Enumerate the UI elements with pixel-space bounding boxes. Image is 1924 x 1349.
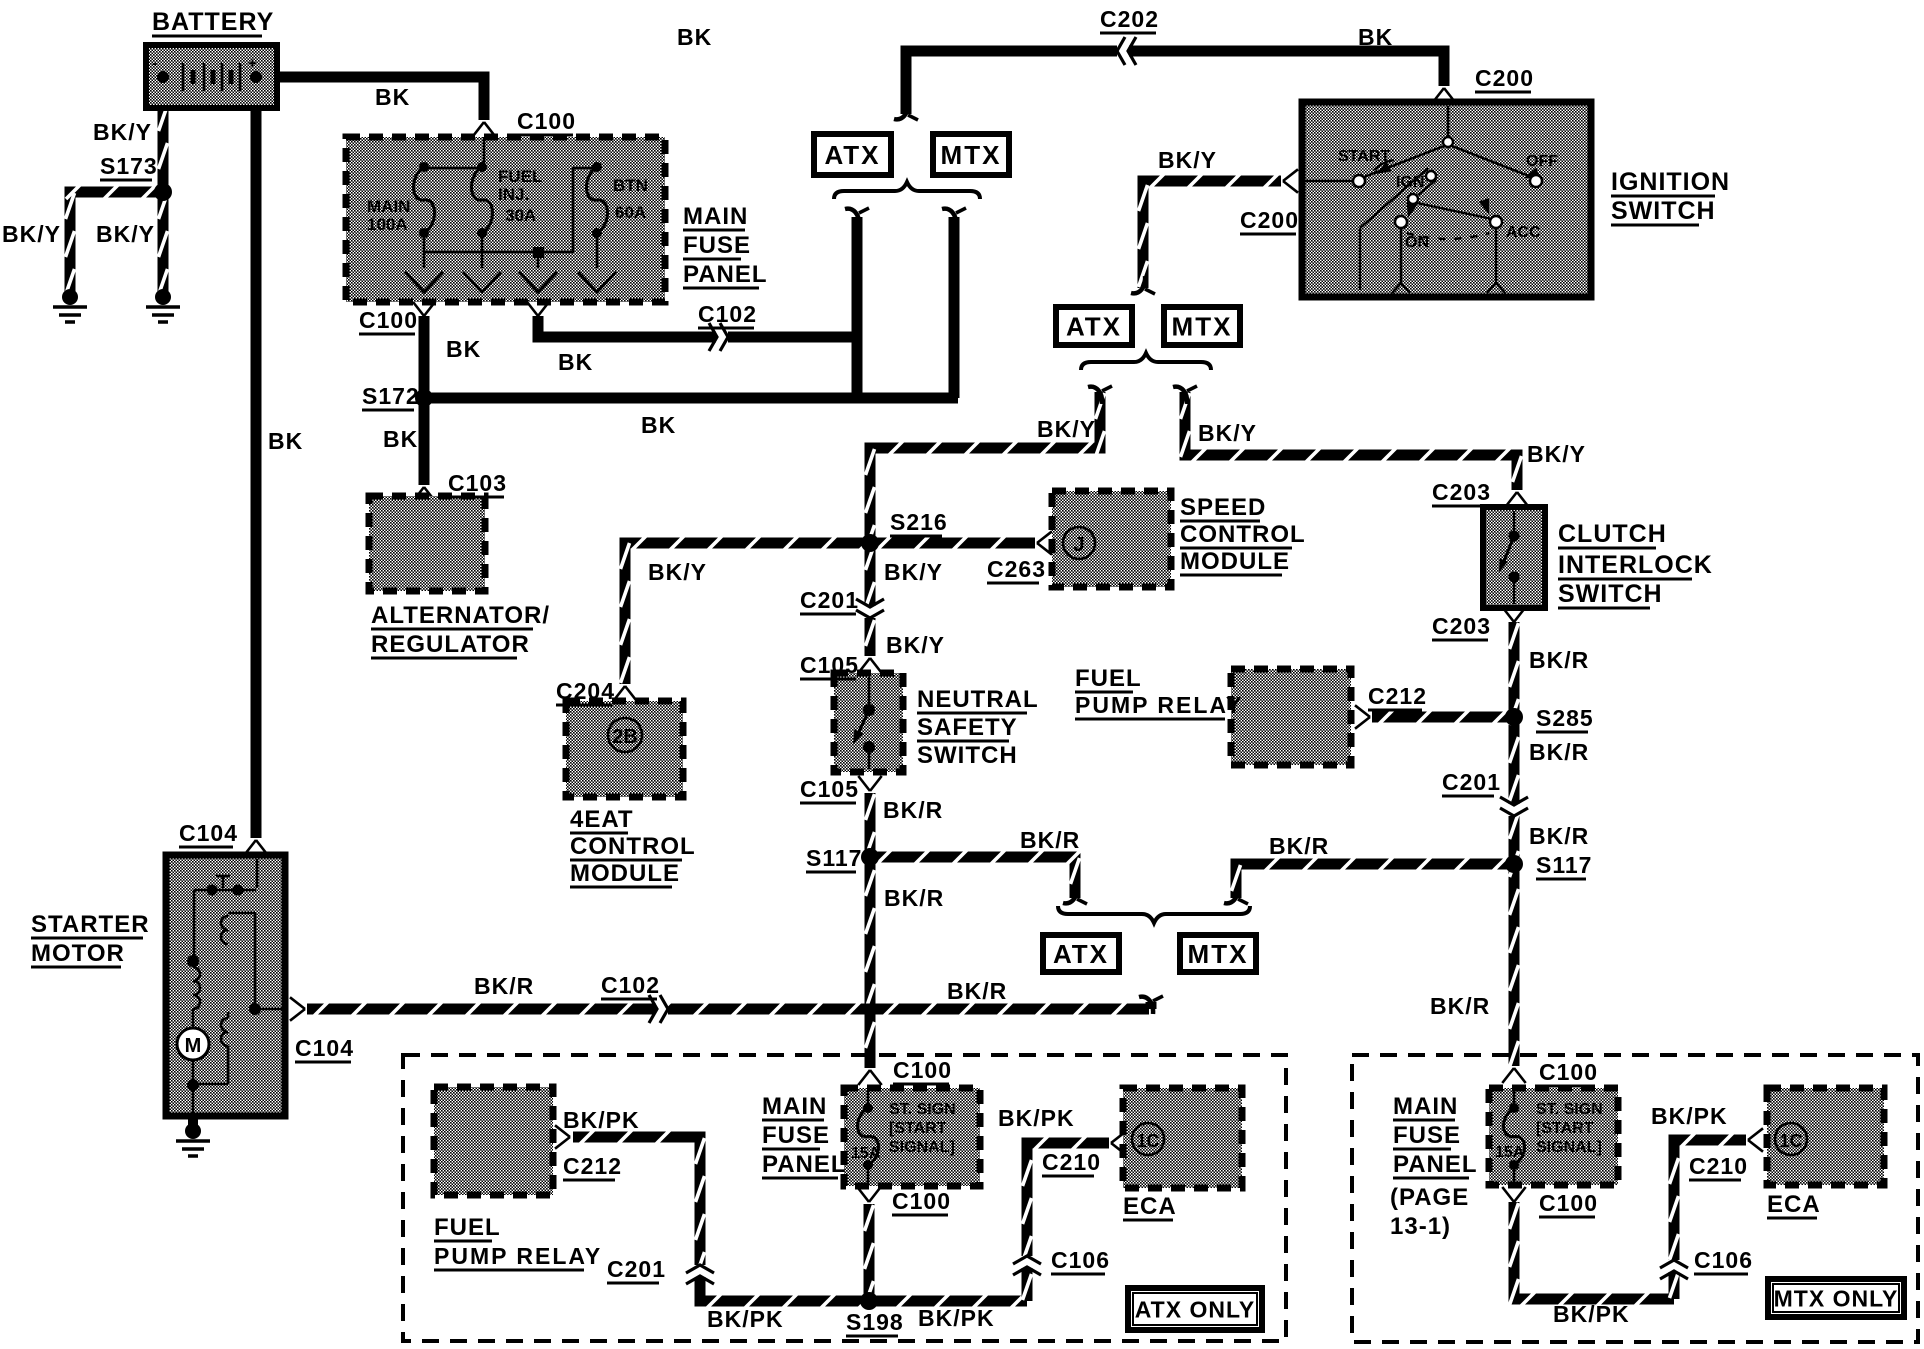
svg-text:BK/Y: BK/Y <box>1198 420 1257 446</box>
svg-text:FUEL: FUEL <box>1075 665 1142 692</box>
svg-text:[START: [START <box>1536 1120 1594 1137</box>
svg-text:1C: 1C <box>1779 1131 1802 1151</box>
svg-text:SIGNAL]: SIGNAL] <box>1536 1139 1602 1156</box>
svg-text:BK/PK: BK/PK <box>1553 1301 1630 1327</box>
svg-text:C106: C106 <box>1694 1247 1753 1273</box>
svg-text:MAIN: MAIN <box>1393 1093 1458 1120</box>
svg-text:PANEL: PANEL <box>1393 1151 1478 1178</box>
svg-text:BK: BK <box>446 336 481 362</box>
svg-text:SAFETY: SAFETY <box>917 714 1018 741</box>
svg-text:IGNITION: IGNITION <box>1611 168 1730 196</box>
svg-text:BK: BK <box>641 412 676 438</box>
svg-text:MOTOR: MOTOR <box>31 940 125 967</box>
svg-text:CONTROL: CONTROL <box>1180 521 1306 548</box>
svg-text:SIGNAL]: SIGNAL] <box>889 1139 955 1156</box>
svg-text:MAIN: MAIN <box>683 203 748 230</box>
svg-text:BK/Y: BK/Y <box>1158 147 1217 173</box>
svg-text:S173: S173 <box>100 153 158 179</box>
svg-text:C210: C210 <box>1042 1149 1101 1175</box>
svg-text:ECA: ECA <box>1767 1191 1821 1218</box>
svg-text:BK/R: BK/R <box>474 973 534 999</box>
svg-text:BK/R: BK/R <box>1529 647 1589 673</box>
svg-text:C102: C102 <box>698 301 757 327</box>
svg-text:MTX ONLY: MTX ONLY <box>1774 1285 1899 1311</box>
svg-text:BK/R: BK/R <box>947 978 1007 1004</box>
svg-text:2B: 2B <box>612 726 638 748</box>
svg-text:15A: 15A <box>851 1145 881 1162</box>
svg-text:MAIN: MAIN <box>367 197 410 216</box>
svg-text:C100: C100 <box>359 307 418 333</box>
svg-text:1C: 1C <box>1136 1131 1159 1151</box>
svg-text:STARTER: STARTER <box>31 911 150 938</box>
svg-text:FUEL: FUEL <box>434 1214 501 1241</box>
svg-text:MODULE: MODULE <box>1180 548 1290 575</box>
svg-text:BK: BK <box>677 24 712 50</box>
svg-text:ATX: ATX <box>1066 311 1122 341</box>
svg-text:ST. SIGN: ST. SIGN <box>889 1101 956 1118</box>
svg-text:CONTROL: CONTROL <box>570 833 696 860</box>
svg-text:C204: C204 <box>556 678 615 704</box>
svg-text:BK/Y: BK/Y <box>648 559 707 585</box>
svg-text:15A: 15A <box>1495 1144 1525 1161</box>
svg-text:BK/Y: BK/Y <box>2 221 61 247</box>
svg-text:C105: C105 <box>800 652 859 678</box>
svg-text:BK: BK <box>1358 24 1393 50</box>
svg-text:BK/R: BK/R <box>1529 823 1589 849</box>
svg-text:BK/PK: BK/PK <box>563 1107 640 1133</box>
svg-text:J: J <box>1073 534 1084 556</box>
svg-text:BK/Y: BK/Y <box>1037 416 1096 442</box>
svg-text:BK/R: BK/R <box>1020 827 1080 853</box>
svg-text:C201: C201 <box>1442 769 1501 795</box>
svg-text:PUMP RELAY: PUMP RELAY <box>434 1243 602 1269</box>
svg-text:OFF: OFF <box>1526 153 1558 170</box>
svg-text:S216: S216 <box>890 509 948 535</box>
svg-text:ACC: ACC <box>1506 224 1541 241</box>
svg-text:FUEL: FUEL <box>498 167 542 186</box>
svg-text:C100: C100 <box>892 1188 951 1214</box>
svg-text:S198: S198 <box>846 1309 904 1335</box>
svg-text:ATX: ATX <box>1053 939 1109 969</box>
svg-text:C104: C104 <box>179 820 238 846</box>
svg-text:BK/R: BK/R <box>1269 833 1329 859</box>
svg-text:MAIN: MAIN <box>762 1093 827 1120</box>
svg-text:60A: 60A <box>615 203 646 222</box>
svg-text:S172: S172 <box>362 383 420 409</box>
svg-text:ECA: ECA <box>1123 1193 1177 1220</box>
svg-text:CLUTCH: CLUTCH <box>1558 520 1667 548</box>
svg-text:4EAT: 4EAT <box>570 806 634 833</box>
svg-text:PUMP RELAY: PUMP RELAY <box>1075 692 1243 718</box>
svg-text:BK/Y: BK/Y <box>1527 441 1586 467</box>
svg-text:C200: C200 <box>1475 65 1534 91</box>
svg-text:REGULATOR: REGULATOR <box>371 631 530 658</box>
svg-text:FUSE: FUSE <box>1393 1122 1461 1149</box>
svg-text:C100: C100 <box>517 108 576 134</box>
svg-text:START: START <box>1338 148 1390 165</box>
svg-text:C100: C100 <box>1539 1059 1598 1085</box>
svg-text:C201: C201 <box>800 587 859 613</box>
svg-text:S117: S117 <box>806 845 862 871</box>
svg-text:C104: C104 <box>295 1035 354 1061</box>
svg-text:BK/PK: BK/PK <box>998 1105 1075 1131</box>
svg-text:BK/Y: BK/Y <box>93 119 152 145</box>
svg-text:ALTERNATOR/: ALTERNATOR/ <box>371 602 550 629</box>
svg-text:ON: ON <box>1405 234 1429 251</box>
svg-text:PANEL: PANEL <box>683 261 768 288</box>
svg-text:BK/R: BK/R <box>1529 739 1589 765</box>
svg-text:SPEED: SPEED <box>1180 494 1266 521</box>
svg-text:C201: C201 <box>607 1256 666 1282</box>
svg-text:BK: BK <box>375 84 410 110</box>
svg-text:+: + <box>248 55 258 72</box>
svg-text:C102: C102 <box>601 972 660 998</box>
svg-text:S285: S285 <box>1536 705 1594 731</box>
svg-text:C100: C100 <box>1539 1190 1598 1216</box>
svg-text:S117: S117 <box>1536 852 1592 878</box>
svg-text:BK/R: BK/R <box>883 797 943 823</box>
svg-text:BK/PK: BK/PK <box>707 1306 784 1332</box>
svg-text:C210: C210 <box>1689 1153 1748 1179</box>
svg-text:ATX ONLY: ATX ONLY <box>1135 1296 1255 1322</box>
svg-text:C106: C106 <box>1051 1247 1110 1273</box>
svg-text:INTERLOCK: INTERLOCK <box>1558 551 1713 579</box>
svg-text:BK/PK: BK/PK <box>1651 1103 1728 1129</box>
svg-text:100A: 100A <box>367 215 408 234</box>
svg-text:C105: C105 <box>800 776 859 802</box>
svg-text:BTN: BTN <box>613 176 648 195</box>
svg-text:30A: 30A <box>505 206 536 225</box>
svg-text:BK/Y: BK/Y <box>96 221 155 247</box>
svg-text:BK/Y: BK/Y <box>884 559 943 585</box>
svg-text:SWITCH: SWITCH <box>1558 580 1663 608</box>
svg-text:M: M <box>185 1035 202 1057</box>
svg-text:MODULE: MODULE <box>570 860 680 887</box>
svg-text:INJ.: INJ. <box>498 185 529 204</box>
svg-text:MTX: MTX <box>1172 311 1233 341</box>
svg-text:C263: C263 <box>987 556 1046 582</box>
svg-text:C212: C212 <box>563 1153 622 1179</box>
svg-text:BK: BK <box>558 349 593 375</box>
svg-text:FUSE: FUSE <box>762 1122 830 1149</box>
svg-text:BK/R: BK/R <box>884 885 944 911</box>
svg-text:NEUTRAL: NEUTRAL <box>917 686 1039 713</box>
svg-text:MTX: MTX <box>1188 939 1249 969</box>
svg-text:C100: C100 <box>893 1057 952 1083</box>
svg-text:BK: BK <box>268 428 303 454</box>
svg-text:SWITCH: SWITCH <box>1611 197 1716 225</box>
svg-text:BK/R: BK/R <box>1430 993 1490 1019</box>
svg-text:BK: BK <box>383 426 418 452</box>
svg-text:[START: [START <box>889 1120 947 1137</box>
svg-text:BK/Y: BK/Y <box>886 632 945 658</box>
svg-text:ATX: ATX <box>824 140 880 170</box>
svg-text:-: - <box>152 55 158 72</box>
svg-text:C203: C203 <box>1432 613 1491 639</box>
svg-text:BATTERY: BATTERY <box>152 8 274 36</box>
svg-text:C103: C103 <box>448 470 507 496</box>
svg-text:C203: C203 <box>1432 479 1491 505</box>
svg-text:BK/PK: BK/PK <box>918 1305 995 1331</box>
svg-text:(PAGE: (PAGE <box>1390 1184 1469 1211</box>
svg-text:ST. SIGN: ST. SIGN <box>1536 1101 1603 1118</box>
svg-text:SWITCH: SWITCH <box>917 742 1018 769</box>
svg-text:FUSE: FUSE <box>683 232 751 259</box>
svg-text:PANEL: PANEL <box>762 1151 847 1178</box>
svg-text:C212: C212 <box>1368 683 1427 709</box>
svg-text:MTX: MTX <box>941 140 1002 170</box>
svg-text:IGN: IGN <box>1396 174 1424 191</box>
svg-text:13-1): 13-1) <box>1390 1213 1451 1240</box>
svg-text:C202: C202 <box>1100 6 1159 32</box>
svg-text:C200: C200 <box>1240 207 1299 233</box>
